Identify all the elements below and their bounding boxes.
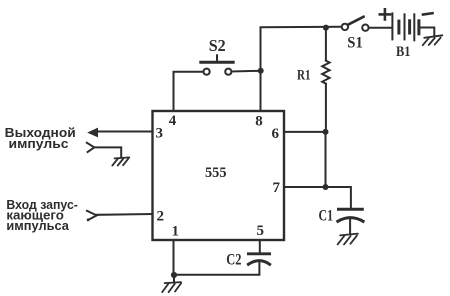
svg-text:555: 555 <box>205 165 227 181</box>
svg-text:R1: R1 <box>297 68 311 84</box>
svg-text:1: 1 <box>172 224 180 240</box>
svg-text:импульс: импульс <box>9 136 69 151</box>
svg-text:импульса: импульса <box>6 218 69 233</box>
svg-text:2: 2 <box>157 209 165 225</box>
svg-text:S2: S2 <box>209 36 226 55</box>
svg-text:4: 4 <box>169 113 177 129</box>
svg-text:3: 3 <box>156 126 164 142</box>
svg-text:S1: S1 <box>347 35 363 52</box>
svg-text:6: 6 <box>272 126 280 142</box>
svg-text:7: 7 <box>273 180 281 196</box>
svg-text:8: 8 <box>255 114 263 130</box>
svg-text:C1: C1 <box>319 208 334 225</box>
svg-text:5: 5 <box>257 223 265 239</box>
svg-text:C2: C2 <box>226 251 241 268</box>
svg-text:B1: B1 <box>396 44 411 60</box>
